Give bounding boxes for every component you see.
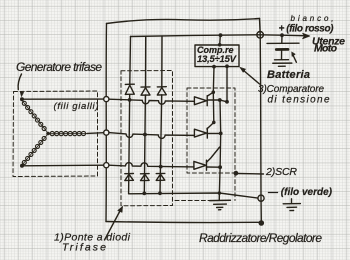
svg-text:(fili gialli): (fili gialli) <box>54 101 99 112</box>
node + terminal (crossed circle) <box>257 32 264 39</box>
terminal T1 <box>104 97 109 102</box>
comparator box U1 <box>195 45 239 67</box>
diode D5 bottom <box>141 173 150 175</box>
node: bus-col2 <box>142 192 146 196</box>
node: comparator output B <box>225 64 229 68</box>
svg-text:bianco,: bianco, <box>291 14 335 23</box>
gate wire Q1 from comparator <box>212 67 215 93</box>
battery B1 <box>281 35 283 43</box>
svg-text:Batteria: Batteria <box>267 69 310 81</box>
wire: bottom bus <box>129 193 258 198</box>
wire: phase row 1 <box>109 99 195 104</box>
ground: chassis (filo verde) <box>291 199 293 204</box>
diode D1 top <box>125 83 134 85</box>
bridge column 1 <box>129 37 132 85</box>
svg-text:2)SCR: 2)SCR <box>265 166 297 178</box>
leader: batteria arrow <box>293 56 296 63</box>
wire: phase2 to terminal <box>87 132 104 135</box>
svg-text:+ (filo rosso): + (filo rosso) <box>279 24 335 35</box>
generator dashed enclosure <box>13 91 98 177</box>
node: case corner junction <box>259 220 265 226</box>
terminal T2 <box>104 130 109 135</box>
leader: generatore arrow <box>18 74 21 90</box>
node: comparator output A <box>212 65 216 69</box>
node: battery tap <box>280 33 284 37</box>
winding L3 <box>22 135 47 165</box>
SCR Q1 <box>194 97 206 105</box>
node: bus-ground tap <box>218 191 221 194</box>
node: bus-col3 <box>158 191 162 195</box>
bridge dashed enclosure <box>121 71 173 206</box>
wire: + bus <box>131 35 308 37</box>
diode D4 bottom <box>125 173 134 175</box>
SCR Q2 <box>194 129 206 137</box>
wire: phase3 to terminal <box>22 164 104 167</box>
diode D6 bottom <box>156 172 165 174</box>
leader: comparatore arrow <box>243 70 260 84</box>
node: B junction <box>225 100 229 104</box>
wire: comparator output B <box>226 66 228 102</box>
diode D2 top <box>141 86 150 88</box>
wire: phase1 to terminal <box>22 98 104 100</box>
svg-text:Generatore trifase: Generatore trifase <box>16 60 102 74</box>
node: rail q2 <box>219 132 223 136</box>
node: row3-col3 junction <box>159 165 163 169</box>
wire: phase row 2 <box>109 133 195 139</box>
ground below battery <box>275 59 289 61</box>
node: gate2 junction <box>212 121 216 125</box>
node: row2-col2 junction <box>143 133 147 137</box>
node: bus to comparator tap <box>219 33 223 37</box>
wire: cathode rail <box>219 100 220 199</box>
svg-text:13,5÷15V: 13,5÷15V <box>197 54 237 65</box>
terminal T3 <box>104 163 109 168</box>
diode D3 top <box>157 86 166 88</box>
svg-text:3)Comparatore: 3)Comparatore <box>258 84 324 95</box>
winding L1 <box>22 101 47 133</box>
node: row1-col1 junction <box>128 98 132 102</box>
ground: regulator <box>210 199 231 201</box>
leader: ponte a diodi arrow <box>105 210 121 240</box>
wire: comparator to bus <box>219 35 222 45</box>
bridge column 2 <box>145 36 147 87</box>
gate wire Q3 <box>207 147 220 162</box>
wire: phase row 3 <box>109 163 194 167</box>
node: gate1 junction <box>212 90 216 94</box>
SCR dashed enclosure <box>175 88 235 201</box>
svg-text:Moto: Moto <box>314 43 338 55</box>
node: phase3 corner <box>20 164 24 168</box>
winding L2 <box>48 131 87 135</box>
node - terminal (crossed circle) <box>258 195 264 201</box>
svg-text:Raddrizzatore/Regolatore: Raddrizzatore/Regolatore <box>199 231 322 245</box>
node: rail q3 <box>218 165 222 169</box>
SCR Q3 <box>194 161 206 169</box>
node: phase1 corner <box>20 97 24 101</box>
node: rail top <box>218 98 222 102</box>
leader: 2)SCR dot and line <box>234 171 239 176</box>
regulator case outline <box>107 19 260 24</box>
svg-text:— (filo verde): — (filo verde) <box>267 187 333 198</box>
arrow: utenze moto <box>303 33 310 39</box>
bridge column 3 <box>161 36 163 87</box>
generator G1: star node <box>46 132 50 136</box>
gate wire Q2 <box>212 92 215 122</box>
